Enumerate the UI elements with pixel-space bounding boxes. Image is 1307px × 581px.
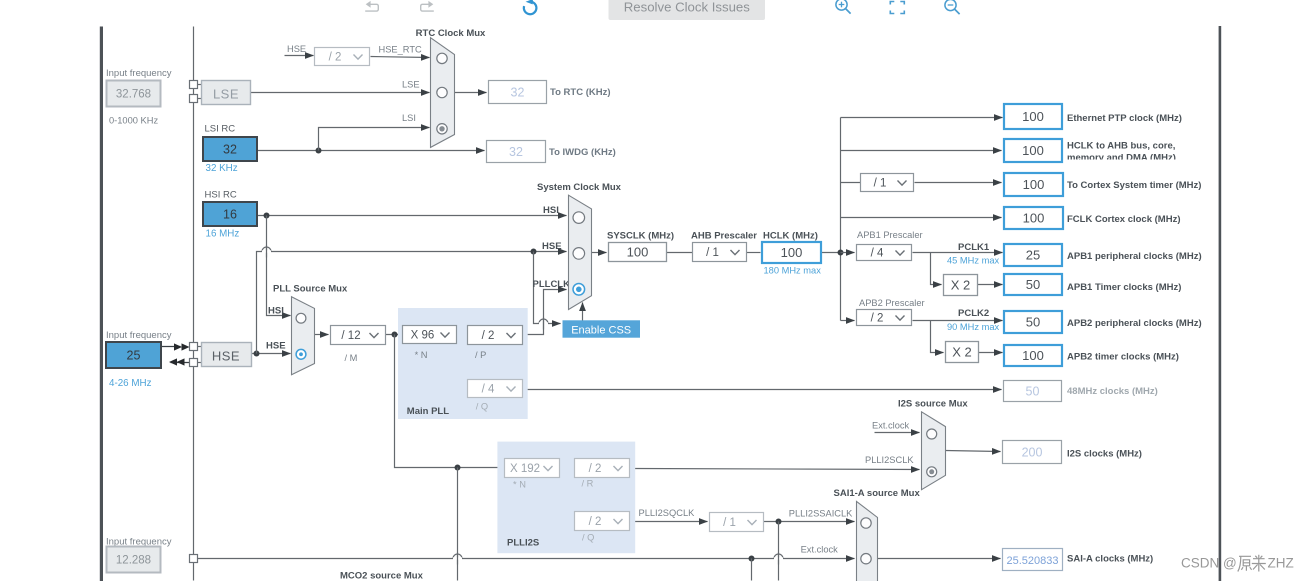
Cortex system timer box (1004, 173, 1063, 196)
svg-text:PLLI2SSAICLK: PLLI2SSAICLK (789, 509, 853, 519)
PLL /Q divider dropdown (468, 380, 523, 398)
svg-text:100: 100 (781, 245, 803, 260)
svg-text:ZHZ: ZHZ (1268, 556, 1294, 571)
wire AHB prescaler to HCLK box (747, 252, 761, 254)
wire PLLI2S N to R (559, 467, 575, 469)
svg-text:32: 32 (509, 145, 523, 159)
svg-text:100: 100 (627, 244, 649, 259)
I2S clocks box (1003, 441, 1062, 464)
svg-text:X 192: X 192 (510, 463, 540, 475)
wire SAI mux output to SAI-A clocks box (878, 558, 1001, 560)
svg-text:SAI1-A source Mux: SAI1-A source Mux (834, 488, 921, 499)
radio LSI selected (437, 124, 447, 134)
svg-text:12.288: 12.288 (116, 554, 151, 566)
svg-text:90 MHz max: 90 MHz max (947, 322, 1000, 332)
svg-text:Input frequency: Input frequency (106, 330, 172, 341)
svg-text:HSE: HSE (287, 44, 306, 54)
svg-text:System Clock Mux: System Clock Mux (537, 182, 622, 193)
FCLK box (1004, 207, 1063, 229)
svg-text:* N: * N (415, 350, 428, 360)
Main PLL panel (398, 308, 528, 419)
radio SAI ext clock (861, 554, 871, 564)
wire /2 RTC divider to RTC mux (HSE_RTC) (371, 57, 430, 58)
junction HSI branch (264, 213, 270, 219)
APB1 timer clocks box (1004, 274, 1062, 295)
radio PLL HSI (296, 313, 306, 323)
wire HCLK box to trunk (821, 252, 841, 254)
wire PLLI2S branch down to MCO2 (457, 468, 459, 581)
svg-text:SAI-A clocks (MHz): SAI-A clocks (MHz) (1067, 554, 1153, 565)
svg-text:HSE: HSE (542, 241, 562, 252)
To RTC output box (489, 81, 547, 104)
svg-text:LSE: LSE (402, 80, 420, 90)
wire X2 to APB2 timer box (979, 352, 1003, 354)
svg-text:X 96: X 96 (411, 330, 435, 342)
right canvas border (1219, 26, 1222, 581)
svg-text:Ethernet PTP clock (MHz): Ethernet PTP clock (MHz) (1067, 113, 1182, 124)
wire trunk to HCLK AHB box (841, 150, 1002, 152)
APB2 peripheral clocks box (1004, 311, 1062, 333)
svg-text:I2S clocks (MHz): I2S clocks (MHz) (1067, 449, 1142, 460)
svg-text:HSI: HSI (543, 205, 559, 216)
wire APB2 branch to X2 (931, 321, 944, 353)
svg-text:memory and DMA (MHz): memory and DMA (MHz) (1067, 153, 1176, 164)
APB2 X2 multiplier box (946, 342, 979, 363)
svg-text:100: 100 (1022, 109, 1044, 124)
junction LSI branch (316, 148, 322, 154)
wire Enable CSS arrow into mux (582, 303, 584, 321)
svg-text:* N: * N (513, 480, 526, 490)
svg-text:Main PLL: Main PLL (407, 406, 449, 417)
bump bottom wire over SAI line (774, 554, 783, 559)
svg-text:PLLCLK: PLLCLK (533, 279, 571, 290)
svg-text:/ 2: / 2 (589, 516, 602, 528)
connector square I2S CKIN (190, 555, 198, 563)
wire PLL Source Mux output to /M (315, 334, 329, 336)
left canvas border (100, 27, 103, 581)
svg-text:PCLK2: PCLK2 (958, 308, 989, 319)
svg-text:APB2 peripheral clocks (MHz): APB2 peripheral clocks (MHz) (1067, 318, 1202, 329)
radio sys PLLCLK selected (573, 284, 585, 296)
redo icon (428, 1, 433, 8)
wire I2S mux output to I2S clocks box (946, 451, 1001, 452)
wire double arrow HSE input backward (171, 362, 191, 364)
svg-text:100: 100 (1023, 177, 1045, 192)
svg-text:100: 100 (1023, 211, 1045, 226)
wire SYSCLK box to AHB prescaler (667, 252, 693, 254)
radio SAI PLLI2SSAICLK (861, 518, 871, 528)
svg-text:LSE: LSE (213, 87, 239, 102)
wire /1 divider to Cortex timer box (915, 182, 1002, 184)
APB1 peripheral clocks box (1004, 244, 1062, 266)
svg-text:/ 12: / 12 (341, 330, 360, 342)
wire LSE to RTC mux (251, 92, 430, 94)
To IWDG output box (487, 141, 546, 163)
svg-text:FCLK Cortex clock (MHz): FCLK Cortex clock (MHz) (1067, 214, 1180, 225)
svg-text:APB1 peripheral clocks (MHz): APB1 peripheral clocks (MHz) (1067, 251, 1202, 262)
HSE input frequency box 25 (106, 342, 161, 368)
radio HSE_RTC (437, 53, 447, 63)
svg-text:Enable CSS: Enable CSS (571, 324, 631, 336)
svg-text:APB2 Prescaler: APB2 Prescaler (859, 298, 925, 308)
junction PLL input (392, 332, 398, 338)
svg-text:X 2: X 2 (951, 277, 971, 292)
wire N-P branch down to Q (462, 335, 468, 389)
connector squares HSE (198, 346, 203, 348)
wire HSE label to /2 RTC divider (285, 55, 314, 57)
wire trunk to APB2 prescaler (841, 320, 855, 322)
SAI /1 divider dropdown (710, 513, 764, 532)
To Cortex timer /1 dropdown (861, 174, 914, 192)
HCLK AHB output box (1004, 139, 1062, 162)
Ethernet PTP clock box (1004, 104, 1062, 129)
svg-text:/ 1: / 1 (874, 178, 887, 190)
svg-text:/ 2: / 2 (589, 463, 602, 475)
HSE source box (202, 343, 252, 367)
svg-text:PLLI2S: PLLI2S (507, 538, 539, 549)
svg-text:/ 2: / 2 (482, 330, 495, 342)
svg-text:25: 25 (1026, 248, 1040, 263)
RTC clock mux trapezoid (431, 38, 455, 148)
svg-text:HCLK to AHB bus, core,: HCLK to AHB bus, core, (1067, 141, 1175, 152)
svg-text:200: 200 (1022, 445, 1043, 459)
connector squares LSE (198, 84, 203, 86)
AHB prescaler dropdown (693, 243, 747, 262)
svg-text:180 MHz max: 180 MHz max (764, 266, 822, 276)
svg-text:PCLK1: PCLK1 (958, 242, 990, 253)
svg-text:16: 16 (223, 207, 237, 221)
svg-text:/ 2: / 2 (871, 313, 884, 325)
svg-text:I2S source Mux: I2S source Mux (898, 399, 968, 410)
junction trunk APB (838, 250, 844, 256)
bump bottom wire over PLLI2S-MCO2 line (453, 554, 462, 559)
radio PLL HSE selected (296, 349, 306, 359)
wire trunk to APB1 prescaler (841, 252, 855, 254)
wire double arrow HSE input forward (161, 346, 181, 348)
wire APB1 prescaler to APB1 peripheral box (913, 252, 1003, 254)
svg-text:SYSCLK (MHz): SYSCLK (MHz) (607, 231, 674, 242)
wire PLLI2S N-R branch down to Q2 (567, 468, 575, 521)
svg-text:PLLI2SCLK: PLLI2SCLK (865, 455, 914, 465)
svg-text:100: 100 (1022, 348, 1044, 363)
wire HSE branch up to System Clock Mux (257, 252, 567, 354)
svg-text:48MHz clocks (MHz): 48MHz clocks (MHz) (1067, 386, 1158, 397)
svg-text:25: 25 (127, 348, 141, 362)
wire Ext clock to I2S mux (875, 432, 920, 434)
RTC /2 divider dropdown (315, 48, 370, 66)
wire trunk to /1 cortex divider (841, 182, 861, 184)
svg-text:Ext.clock: Ext.clock (801, 545, 839, 555)
APB2 timer clocks box (1004, 345, 1062, 366)
svg-text:LSI: LSI (402, 113, 416, 123)
svg-text:/ Q: / Q (476, 402, 488, 412)
svg-text:LSI RC: LSI RC (205, 124, 236, 135)
wire PLL branch down to PLLI2S (395, 335, 503, 468)
wire PLL Q to 48MHz box (523, 389, 1002, 391)
svg-text:APB1 Timer clocks (MHz): APB1 Timer clocks (MHz) (1067, 282, 1181, 293)
svg-text:CSDN @: CSDN @ (1181, 556, 1237, 571)
wire /1 divider to SAI mux (764, 521, 855, 523)
fit-to-screen icon (890, 2, 904, 14)
LSI RC box 32 (203, 137, 257, 161)
wire HSE box to PLL Source Mux (251, 353, 291, 355)
svg-text:32: 32 (223, 142, 237, 156)
SAI1-A source mux trapezoid (857, 501, 878, 581)
svg-text:APB1 Prescaler: APB1 Prescaler (857, 230, 923, 240)
svg-text:HSE: HSE (212, 349, 240, 364)
svg-text:/ Q: / Q (582, 533, 594, 543)
svg-text:Input frequency: Input frequency (106, 68, 172, 79)
PLLI2S panel (497, 442, 635, 554)
svg-text:32: 32 (511, 85, 525, 99)
wire PLLI2S R to I2S mux (630, 469, 920, 470)
wire SYSCLK mux output (592, 252, 607, 254)
svg-text:Ext.clock: Ext.clock (872, 421, 910, 431)
wire HSI RC output to System Clock Mux (257, 215, 567, 217)
junction HSE output (254, 351, 260, 357)
svg-text:50: 50 (1026, 384, 1040, 398)
I2S source mux trapezoid (922, 412, 946, 490)
Enable CSS button (563, 320, 641, 337)
wire PLLI2S Q2 to /1 divider (630, 521, 708, 523)
wire APB2 prescaler to APB2 peripheral box (913, 320, 1003, 322)
radio I2S ext (927, 429, 937, 439)
junction PLLI2S input (455, 465, 461, 471)
system clock mux trapezoid (569, 195, 592, 309)
radio sys HSE (573, 248, 585, 260)
svg-text:APB2 timer clocks (MHz): APB2 timer clocks (MHz) (1067, 352, 1179, 363)
svg-text:4-26 MHz: 4-26 MHz (109, 378, 152, 389)
svg-text:HSE: HSE (266, 341, 286, 352)
svg-text:PLLI2SQCLK: PLLI2SQCLK (639, 508, 696, 518)
svg-text:To IWDG (KHz): To IWDG (KHz) (549, 147, 616, 158)
wire X2 to APB1 timer box (978, 284, 1003, 286)
APB2 prescaler dropdown (857, 310, 912, 326)
svg-text:45 MHz max: 45 MHz max (947, 256, 1000, 266)
wire PLLI2SSAICLK branch down (778, 522, 780, 581)
svg-text:MCO2 source Mux: MCO2 source Mux (340, 571, 424, 581)
watermark hanzi lai (1252, 555, 1266, 572)
wire LSI branch up to RTC mux (319, 128, 430, 151)
PLLI2S /R dropdown (575, 459, 630, 478)
PLL /P divider dropdown (468, 326, 523, 345)
junction bottom wire branch down (749, 556, 755, 562)
svg-text:AHB Prescaler: AHB Prescaler (691, 231, 757, 242)
svg-text:HSI RC: HSI RC (205, 190, 237, 201)
wire LSI RC output to IWDG box (257, 150, 485, 152)
svg-text:HCLK (MHz): HCLK (MHz) (763, 231, 818, 242)
svg-text:/ R: / R (582, 479, 594, 489)
svg-text:/ P: / P (475, 350, 486, 360)
undo icon (366, 1, 371, 8)
svg-text:/ 4: / 4 (482, 384, 495, 396)
APB1 prescaler dropdown (857, 245, 912, 261)
wire RTC mux output to To-RTC box (455, 92, 487, 94)
svg-text:/ 1: / 1 (706, 247, 719, 259)
PLL /M divider dropdown (331, 326, 386, 345)
wire PLL P output up to System Clock Mux PLLCLK (523, 290, 567, 335)
svg-text:100: 100 (1022, 143, 1044, 158)
48MHz clocks box (1004, 381, 1062, 402)
HCLK box (762, 242, 821, 263)
svg-text:/ 2: / 2 (329, 52, 342, 64)
svg-text:To RTC (KHz): To RTC (KHz) (550, 87, 611, 98)
radio LSE (437, 87, 447, 97)
SAI-A clocks box (1003, 549, 1063, 571)
I2S external input frequency box 12.288 (107, 547, 161, 573)
wire bottom branch down to MCO2 (751, 559, 753, 581)
PLLI2S /Q dropdown (575, 512, 630, 531)
junction PLLI2SSAICLK (776, 519, 782, 525)
wire HSE branch down to Enable CSS (534, 252, 561, 324)
junction HSE to CSS branch (531, 249, 537, 255)
svg-text:25.520833: 25.520833 (1007, 555, 1059, 567)
Resolve Clock Issues button (609, 0, 766, 20)
PLL xN multiplier dropdown (403, 326, 457, 344)
svg-text:RTC Clock Mux: RTC Clock Mux (416, 28, 486, 39)
svg-text:/ 4: / 4 (871, 248, 884, 260)
SYSCLK box (609, 243, 667, 262)
wire /M to PLL N (385, 334, 403, 336)
PLL source mux trapezoid (292, 297, 315, 375)
svg-text:32 KHz: 32 KHz (206, 163, 238, 174)
wire APB1 branch to X2 (931, 253, 942, 285)
APB1 X2 multiplier box (944, 275, 978, 296)
watermark hanzi yuan (1238, 556, 1252, 571)
wire HSI branch down to PLL Source Mux (267, 216, 291, 316)
svg-text:PLL Source Mux: PLL Source Mux (273, 284, 348, 295)
radio sys HSI (573, 212, 585, 224)
PLLI2S xN dropdown (505, 459, 560, 478)
svg-text:0-1000 KHz: 0-1000 KHz (109, 116, 158, 126)
bump CSS-wire-over-PLLCLK crossing (539, 319, 548, 323)
svg-text:/ 1: / 1 (723, 517, 736, 529)
svg-text:Resolve Clock Issues: Resolve Clock Issues (624, 0, 750, 15)
HSI RC box 16 (203, 202, 257, 226)
svg-text:To Cortex System timer (MHz): To Cortex System timer (MHz) (1067, 180, 1201, 191)
svg-text:16 MHz: 16 MHz (206, 229, 240, 240)
svg-text:50: 50 (1026, 315, 1040, 330)
trunk vertical (840, 118, 842, 321)
wire trunk to FCLK box (841, 217, 1002, 219)
bump HSE-over-HSI crossing (262, 247, 271, 252)
radio I2S PLLI2SCLK selected (927, 467, 937, 477)
wire trunk to Ethernet PTP box (841, 117, 1003, 119)
svg-text:/ M: / M (345, 353, 358, 363)
svg-text:32.768: 32.768 (116, 88, 151, 100)
svg-text:HSI: HSI (268, 306, 284, 317)
LSE source box (202, 81, 251, 105)
svg-text:50: 50 (1026, 277, 1040, 292)
LSE input frequency box 32.768 (107, 81, 161, 107)
svg-text:HSE_RTC: HSE_RTC (379, 45, 423, 55)
zoom-out icon (945, 0, 956, 11)
source rail (vertical line) (193, 27, 195, 581)
wire N to P (457, 334, 468, 336)
refresh icon (524, 2, 537, 14)
svg-text:X 2: X 2 (952, 344, 972, 359)
zoom-in icon (836, 0, 847, 10)
bottom ext clock wire (198, 558, 855, 560)
